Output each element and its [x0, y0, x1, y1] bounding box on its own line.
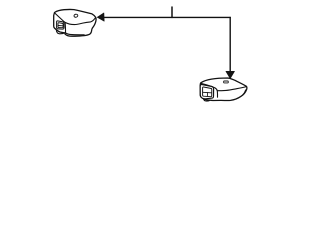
part B front-face top edge	[217, 87, 246, 91]
label 1 tick	[171, 7, 173, 17]
part A body silhouette (left holder)	[54, 9, 96, 36]
part B top-face ridge	[201, 83, 217, 90]
arrowhead to part B	[226, 71, 235, 78]
part B foot tab	[203, 98, 210, 101]
wire: horizontal leader	[104, 16, 230, 18]
part B socket recess notch	[206, 93, 208, 97]
part B socket outer	[200, 84, 213, 98]
part B socket inner	[203, 87, 212, 97]
part A socket recess line	[58, 25, 62, 27]
arrowhead to part A	[97, 13, 104, 21]
part A socket inner	[58, 23, 63, 28]
part A socket outer	[57, 21, 65, 29]
part A top-face ridge	[55, 13, 96, 25]
wire: vertical leader	[229, 17, 231, 71]
part A top hole	[74, 14, 78, 18]
part B body silhouette (right holder)	[200, 78, 247, 101]
part B beak inner edge	[242, 90, 246, 96]
part A face corner edge	[64, 23, 66, 33]
part B socket recess shelf	[203, 91, 211, 94]
part A foot tab	[56, 31, 64, 34]
part A front-face bottom edge	[66, 33, 86, 36]
part B top hole	[224, 81, 229, 83]
part B face corner edge	[216, 91, 218, 97]
